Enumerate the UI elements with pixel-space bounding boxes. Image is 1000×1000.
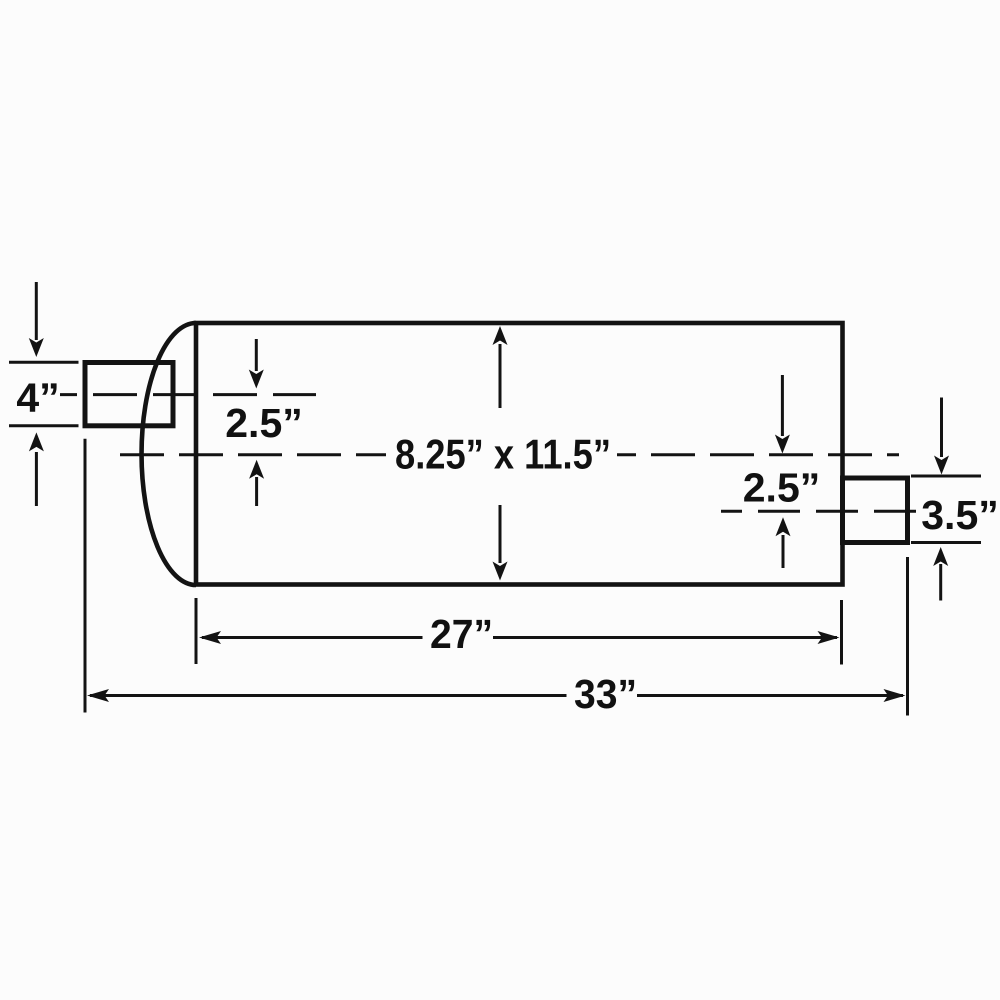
svg-text:2.5”: 2.5” [743,464,821,510]
svg-text:3.5”: 3.5” [921,492,999,538]
svg-text:27”: 27” [430,611,493,657]
svg-text:4”: 4” [16,375,59,421]
svg-text:8.25” x 11.5”: 8.25” x 11.5” [395,430,611,477]
svg-text:2.5”: 2.5” [225,400,303,446]
svg-text:33”: 33” [574,671,637,717]
